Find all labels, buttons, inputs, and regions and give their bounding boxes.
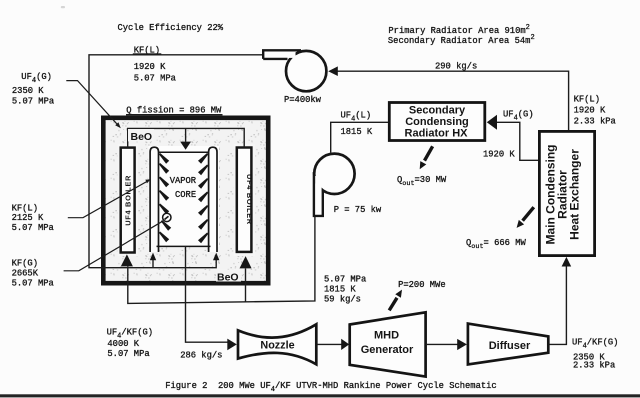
wire branch riser to right boiler <box>245 269 247 302</box>
svg-text:VAPOR: VAPOR <box>170 176 197 186</box>
bottom scan bar <box>0 394 640 397</box>
svg-text:1815 K: 1815 K <box>324 285 356 295</box>
arrowhead into HX right side <box>487 115 497 130</box>
pump P75 volute circle <box>314 154 354 194</box>
svg-text:P=400kw: P=400kw <box>284 95 322 105</box>
wire riser into left inner tube <box>152 260 154 268</box>
svg-text:2.33 kPa: 2.33 kPa <box>573 361 615 371</box>
svg-text:UF4(G): UF4(G) <box>21 72 52 85</box>
vapor core chamber bottom edge <box>157 245 211 247</box>
svg-text:KF(L): KF(L) <box>574 95 600 105</box>
svg-text:2125 K: 2125 K <box>12 213 44 223</box>
svg-text:1815 K: 1815 K <box>341 127 373 137</box>
svg-text:1920 K: 1920 K <box>483 150 515 160</box>
diffuser body <box>468 324 548 365</box>
svg-text:KF(L): KF(L) <box>12 204 38 214</box>
svg-text:MHD: MHD <box>374 329 399 341</box>
big arrowhead into left boiler <box>121 254 133 266</box>
wire KF(L) top loop from pump outlet to reactor tube feeds <box>89 55 263 268</box>
arrowhead into pump P400 <box>328 66 338 76</box>
wire UF4(G) from main condenser to HX <box>496 122 539 160</box>
svg-text:UF4 BOILER: UF4 BOILER <box>245 174 254 225</box>
svg-text:BeO: BeO <box>131 131 153 143</box>
small arrowhead into right inner tube <box>213 253 219 261</box>
main condensing radiator heat exchanger box <box>539 131 594 255</box>
label BeO top-left <box>128 129 154 142</box>
wire nozzle to MHD generator <box>317 343 342 345</box>
svg-text:290 kg/s: 290 kg/s <box>435 62 477 72</box>
svg-text:Qout=30 MW: Qout=30 MW <box>397 175 447 188</box>
svg-text:P = 75 kw: P = 75 kw <box>334 205 382 215</box>
bold arrow Qout 666 MW <box>523 207 534 221</box>
reactor vessel outer wall <box>103 118 268 283</box>
big arrowhead into right boiler <box>240 256 252 268</box>
wire MHD to diffuser <box>427 343 458 345</box>
svg-text:Secondary Radiator Area 54m2: Secondary Radiator Area 54m2 <box>388 34 535 46</box>
svg-text:P=200 MWe: P=200 MWe <box>398 280 446 290</box>
pump P400 outlet duct <box>264 52 296 58</box>
svg-text:286 kg/s: 286 kg/s <box>180 351 222 361</box>
small arrowhead into left inner tube <box>150 253 156 261</box>
svg-text:Q fission = 896 MW: Q fission = 896 MW <box>126 105 222 115</box>
svg-text:Qout= 666 MW: Qout= 666 MW <box>466 238 526 251</box>
svg-text:BeO: BeO <box>217 271 239 283</box>
right inner tube <box>209 147 217 252</box>
wire center drop into vapor core <box>185 128 187 141</box>
pump P400 volute circle <box>286 51 326 91</box>
svg-text:Diffuser: Diffuser <box>489 340 531 352</box>
svg-text:5.07 MPa: 5.07 MPa <box>12 278 54 288</box>
svg-text:UF4(L): UF4(L) <box>341 110 372 123</box>
arrowhead into diffuser <box>457 339 467 350</box>
hatch marks left wall of vapor core <box>159 153 171 242</box>
wire inner KF header to boiler tops <box>128 128 245 147</box>
wire vapor outlet center line to nozzle <box>186 246 228 342</box>
svg-text:Radiator HX: Radiator HX <box>405 128 469 140</box>
svg-text:Secondary: Secondary <box>409 105 466 117</box>
wire pump P75 discharge to boiler feeds <box>128 217 315 304</box>
svg-text:2350 K: 2350 K <box>12 86 44 96</box>
vapor core chamber white area <box>149 146 220 247</box>
svg-text:5.07 MPa: 5.07 MPa <box>12 97 54 107</box>
arrowhead into MHD generator <box>341 339 349 350</box>
hatch marks right wall of vapor core <box>198 153 208 243</box>
reactor vessel interior speckle <box>106 120 266 281</box>
wire from main condenser top to pump P400 <box>337 71 568 130</box>
arrowhead up into main condenser <box>562 257 572 267</box>
vapor core chamber top edge <box>159 151 209 153</box>
pump P75 outlet duct <box>315 176 322 215</box>
svg-text:59 kg/s: 59 kg/s <box>324 295 361 305</box>
svg-text:5.07 MPa: 5.07 MPa <box>107 349 149 359</box>
left inner tube <box>150 147 158 252</box>
leader line KF(G) 2665K to circle symbol <box>64 221 163 271</box>
circle symbol on left tube <box>163 213 171 221</box>
svg-text:Figure 2 200 MWe UF4/KF UTVR-: Figure 2 200 MWe UF4/KF UTVR-MHD Rankine… <box>165 381 497 394</box>
leader line UF4(G) with arrowhead into reactor <box>66 81 117 124</box>
svg-text:KF(G): KF(G) <box>12 259 38 269</box>
svg-text:Heat Exchanger: Heat Exchanger <box>568 149 582 240</box>
svg-text:2.33 kPa: 2.33 kPa <box>574 117 616 127</box>
bold arrow Qout 30 MW <box>425 146 433 160</box>
scan smudge top-left <box>61 6 65 8</box>
svg-text:Condensing: Condensing <box>405 116 469 128</box>
svg-text:CORE: CORE <box>175 190 196 200</box>
svg-text:UF4(G): UF4(G) <box>503 110 534 123</box>
svg-text:Primary Radiator Area 910m2: Primary Radiator Area 910m2 <box>388 24 529 36</box>
svg-text:5.07 MPa: 5.07 MPa <box>324 275 366 285</box>
svg-text:UF4/KF(G): UF4/KF(G) <box>572 338 618 351</box>
svg-text:Cycle Efficiency 22%: Cycle Efficiency 22% <box>118 23 224 33</box>
MHD generator body <box>350 312 426 376</box>
nozzle body <box>238 324 316 364</box>
leader line KF(L) 2125K to left tube <box>68 181 148 218</box>
svg-text:5.07 MPa: 5.07 MPa <box>12 223 54 233</box>
arrowhead into nozzle <box>227 339 237 351</box>
wire UF4(L) from HX to pump P75 <box>331 122 388 152</box>
secondary condensing radiator HX box <box>389 103 485 141</box>
svg-text:Nozzle: Nozzle <box>260 339 294 351</box>
svg-text:1920 K: 1920 K <box>574 106 606 116</box>
svg-text:1920 K: 1920 K <box>134 62 166 72</box>
svg-text:4000 K: 4000 K <box>107 339 139 349</box>
right UF4 boiler <box>234 144 256 256</box>
arrowhead down into vapor core top <box>180 142 191 150</box>
svg-text:UF4 BOILER: UF4 BOILER <box>123 175 132 226</box>
bold arrow P=200 MWe <box>389 298 397 311</box>
wire diffuser to main condenser bottom <box>548 267 566 345</box>
label BeO bottom-right <box>216 270 241 282</box>
left UF4 boiler <box>118 144 139 256</box>
svg-text:5.07 MPa: 5.07 MPa <box>134 73 176 83</box>
svg-text:Generator: Generator <box>361 344 414 356</box>
svg-text:2665K: 2665K <box>12 269 39 279</box>
